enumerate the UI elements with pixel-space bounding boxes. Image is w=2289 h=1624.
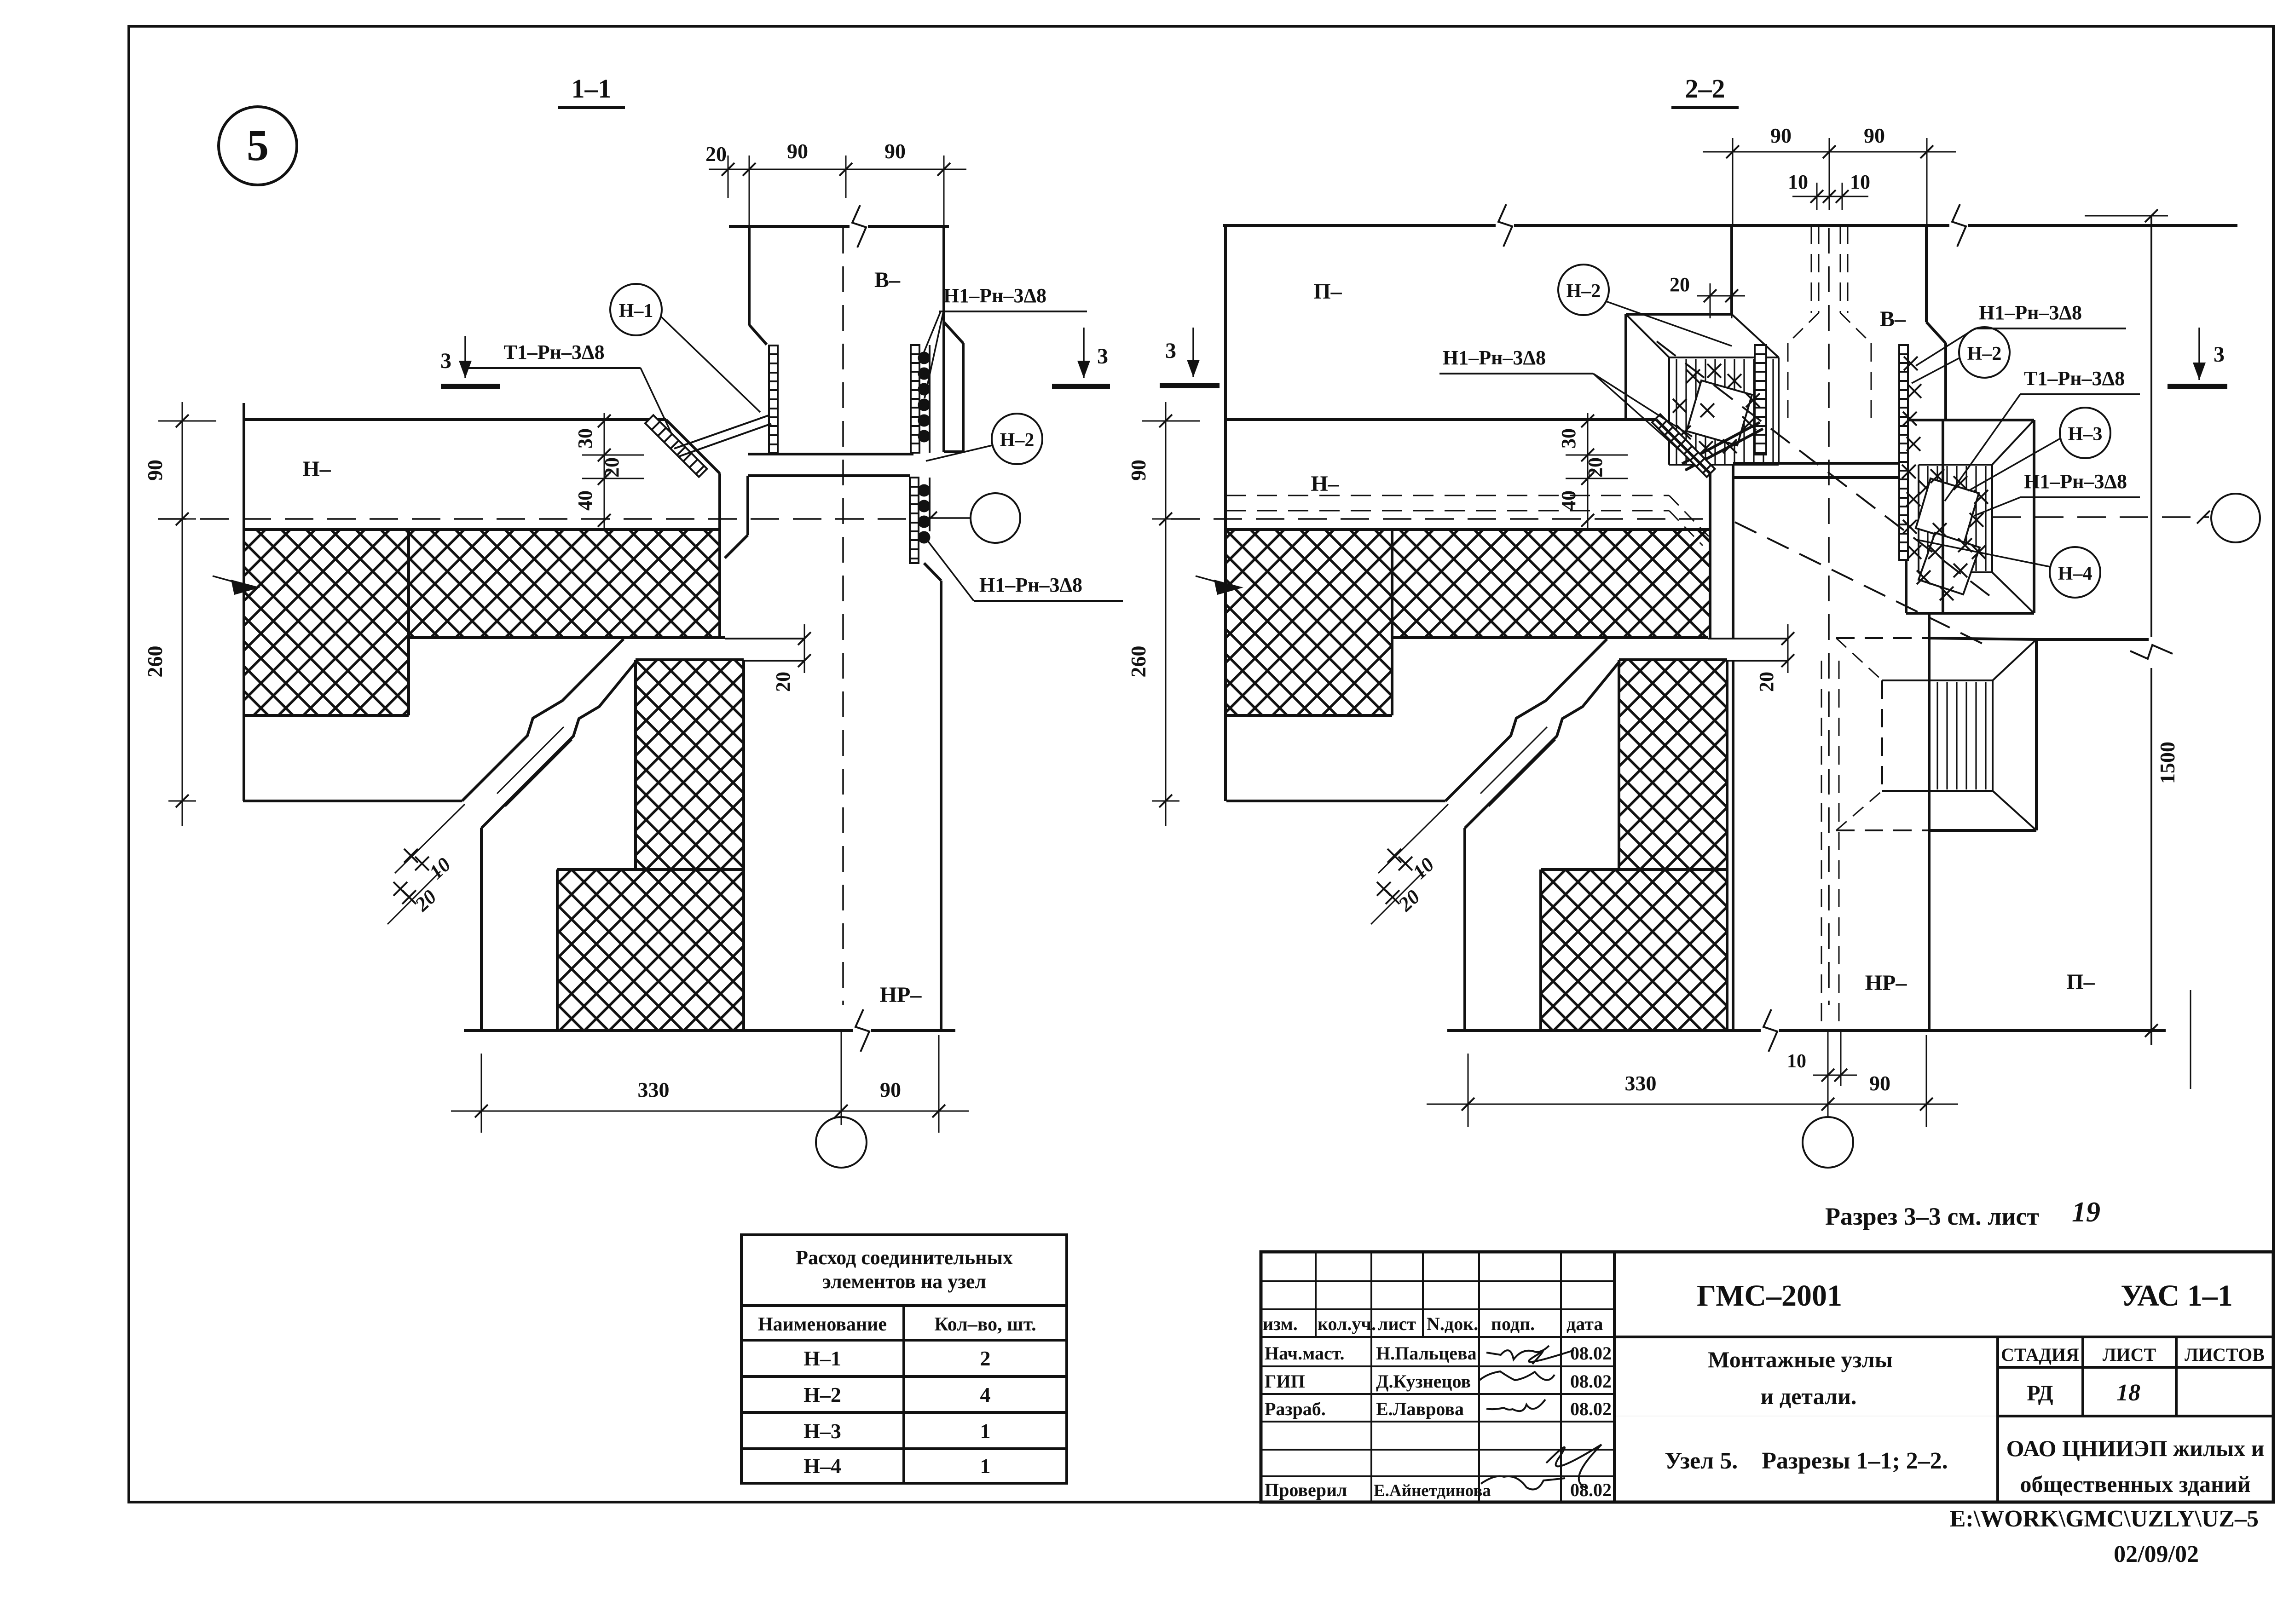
svg-text:Н–: Н–	[1311, 472, 1339, 496]
small dim 10 bottom	[1813, 1075, 1857, 1076]
svg-text:Н1–Рн–3Δ8: Н1–Рн–3Δ8	[943, 284, 1046, 307]
svg-text:5: 5	[247, 121, 269, 170]
section mark 3 (right)	[1083, 328, 1085, 378]
dimension 20 (joint width)	[1710, 283, 1711, 318]
lower hatched block	[557, 870, 744, 1031]
svg-text:02/09/02: 02/09/02	[2114, 1541, 2199, 1567]
svg-text:30: 30	[574, 428, 596, 449]
svg-text:УАС 1–1: УАС 1–1	[2121, 1279, 2232, 1313]
bottom dimension 330/90 (2-2)	[1427, 1104, 1958, 1105]
svg-text:1–1: 1–1	[572, 74, 612, 104]
element H-2 callout	[992, 414, 1042, 464]
svg-text:Н–: Н–	[302, 457, 331, 481]
view direction arrow 1-1	[231, 580, 260, 595]
svg-text:Н–2: Н–2	[1000, 430, 1035, 451]
anchor rod	[674, 415, 769, 449]
svg-text:Н–4: Н–4	[803, 1454, 841, 1478]
reference circle right 2-2	[2211, 494, 2260, 542]
joint width ticks 10/20	[395, 804, 465, 873]
svg-text:90: 90	[787, 139, 808, 163]
svg-text:Н–2: Н–2	[1967, 343, 2002, 364]
svg-text:90: 90	[1770, 124, 1792, 147]
svg-text:Узел 5. Разрезы 1–1; 2–2.: Узел 5. Разрезы 1–1; 2–2.	[1665, 1448, 1948, 1474]
panel axis centerline	[842, 228, 844, 1005]
svg-text:В–: В–	[874, 268, 901, 292]
svg-text:лист: лист	[1378, 1313, 1416, 1334]
joint width ticks 10/20 (2-2)	[1378, 804, 1448, 873]
connection pocket in P- end	[1626, 313, 1732, 316]
svg-text:кол.уч.: кол.уч.	[1318, 1313, 1376, 1334]
svg-text:подп.: подп.	[1491, 1313, 1535, 1334]
svg-text:40: 40	[1557, 490, 1580, 511]
svg-text:НР–: НР–	[1865, 971, 1907, 995]
svg-text:ЛИСТОВ: ЛИСТОВ	[2185, 1344, 2265, 1365]
svg-text:2: 2	[980, 1347, 991, 1370]
svg-text:В–: В–	[1880, 307, 1906, 331]
plates H-3 / H-4 in pocket	[1916, 478, 1979, 543]
element H-1 callout	[610, 284, 662, 335]
slab edge / dim 1500	[2150, 216, 2152, 637]
svg-text:90: 90	[1864, 124, 1885, 147]
wall panel H- (2-2)	[1225, 418, 1656, 421]
svg-text:08.02: 08.02	[1570, 1399, 1612, 1419]
svg-text:Н–1: Н–1	[619, 300, 653, 322]
svg-text:20: 20	[601, 457, 623, 478]
section mark 3 (2-2 right)	[2198, 328, 2200, 380]
svg-text:общественных зданий: общественных зданий	[2020, 1471, 2250, 1497]
svg-text:Нач.маст.: Нач.маст.	[1265, 1343, 1344, 1364]
svg-text:2–2: 2–2	[1685, 74, 1725, 104]
svg-text:1: 1	[980, 1419, 991, 1443]
insulation band under wall	[244, 530, 720, 638]
left dimension 90/260	[182, 402, 183, 826]
svg-text:Расход соединительных: Расход соединительных	[796, 1246, 1013, 1269]
svg-text:Н–1: Н–1	[803, 1347, 841, 1370]
lower hatched block 2-2	[1541, 870, 1727, 1031]
connection pocket right (upper)	[1906, 419, 2034, 421]
svg-text:ГИП: ГИП	[1265, 1371, 1305, 1392]
connection pocket right (lower)	[1836, 637, 1929, 639]
upper wall panel B- outline	[729, 225, 949, 228]
bottom edge of lower panels	[464, 1029, 955, 1032]
svg-text:Н1–Рн–3Δ8: Н1–Рн–3Δ8	[1443, 346, 1546, 369]
svg-text:Разраб.: Разраб.	[1265, 1399, 1326, 1419]
svg-text:дата: дата	[1566, 1313, 1603, 1334]
section mark 3 (left)	[464, 336, 466, 378]
svg-text:РД: РД	[2027, 1381, 2053, 1405]
svg-text:10: 10	[1850, 171, 1870, 193]
left hatched block	[244, 638, 409, 715]
svg-text:330: 330	[1625, 1071, 1657, 1095]
dimensions 30/20/40 (2-2)	[1587, 413, 1589, 529]
sealant channel	[243, 800, 462, 802]
hidden joint lines (dashed)	[1811, 225, 1812, 313]
left hatched block 2-2	[1226, 638, 1392, 715]
svg-text:90: 90	[884, 139, 906, 163]
lower panel HP-	[748, 474, 910, 477]
element H-2 callout (left)	[1558, 265, 1609, 315]
lower centre dashed pair	[1821, 661, 1822, 1031]
section mark 3 (2-2 left)	[1192, 328, 1194, 377]
svg-text:20: 20	[705, 142, 727, 166]
svg-text:08.02: 08.02	[1570, 1371, 1612, 1392]
svg-text:330: 330	[638, 1078, 670, 1101]
svg-text:Н–2: Н–2	[1566, 281, 1601, 302]
bottom edge 2-2	[1447, 1029, 2166, 1032]
top dimension line 20/90/90	[709, 169, 966, 170]
parts consumption table	[741, 1235, 1067, 1483]
svg-text:Н–3: Н–3	[803, 1419, 841, 1443]
svg-text:260: 260	[143, 646, 167, 678]
svg-text:20: 20	[772, 672, 794, 692]
svg-text:E:\WORK\GMC\UZLY\UZ–5: E:\WORK\GMC\UZLY\UZ–5	[1950, 1506, 2259, 1532]
svg-text:Н.Пальцева: Н.Пальцева	[1376, 1343, 1477, 1364]
element H-4 callout	[2050, 547, 2100, 598]
reference circle right	[971, 493, 1020, 543]
svg-text:Кол–во, шт.: Кол–во, шт.	[934, 1314, 1036, 1335]
plate T1 on wall chamfer 2-2	[1652, 414, 1715, 477]
svg-text:НР–: НР–	[880, 983, 922, 1007]
svg-text:Д.Кузнецов: Д.Кузнецов	[1376, 1371, 1471, 1392]
svg-text:СТАДИЯ: СТАДИЯ	[2001, 1344, 2079, 1365]
svg-text:Н–4: Н–4	[2058, 563, 2092, 584]
floor axis line	[158, 518, 913, 520]
axis circle bottom 1-1	[816, 1117, 867, 1168]
svg-text:3: 3	[1165, 339, 1176, 363]
hidden anchor rods (dashed)	[1657, 341, 1993, 598]
svg-text:ЛИСТ: ЛИСТ	[2103, 1344, 2156, 1365]
svg-text:20: 20	[1670, 273, 1690, 296]
svg-text:Наименование: Наименование	[758, 1314, 887, 1335]
signatures	[1486, 1346, 1549, 1359]
svg-text:изм.: изм.	[1263, 1313, 1298, 1334]
svg-text:90: 90	[143, 460, 167, 481]
svg-text:П–: П–	[1313, 279, 1342, 304]
svg-text:1500: 1500	[2156, 742, 2179, 784]
vertical joint faces	[1709, 473, 1711, 638]
svg-text:18: 18	[2116, 1380, 2140, 1406]
svg-text:90: 90	[880, 1078, 901, 1101]
svg-text:Разрез 3–3 см. лист: Разрез 3–3 см. лист	[1825, 1203, 2039, 1230]
svg-text:90: 90	[1127, 460, 1150, 481]
svg-text:и детали.: и детали.	[1761, 1383, 1857, 1409]
axis circle bottom 2-2	[1803, 1117, 1853, 1168]
svg-text:ГМС–2001: ГМС–2001	[1697, 1279, 1842, 1313]
svg-text:Т1–Рн–3Δ8: Т1–Рн–3Δ8	[2024, 367, 2125, 390]
svg-text:Н–3: Н–3	[2068, 424, 2103, 445]
view direction arrow 2-2	[1214, 580, 1243, 595]
svg-text:3: 3	[2214, 342, 2225, 367]
connecting plate H-2 (rotated)	[1687, 380, 1752, 445]
svg-text:20: 20	[1584, 457, 1607, 478]
svg-text:Н–2: Н–2	[803, 1383, 841, 1406]
element H-3 callout	[2060, 408, 2110, 458]
top edge of upper panels	[1223, 224, 2237, 227]
svg-text:Проверил: Проверил	[1265, 1480, 1347, 1500]
element H-2 callout (right)	[1959, 327, 2010, 378]
svg-text:Е.Лаврова: Е.Лаврова	[1376, 1399, 1464, 1419]
title block	[1261, 1252, 2273, 1502]
wall panel H-	[244, 418, 666, 421]
svg-text:П–: П–	[2066, 970, 2095, 994]
axis centerline 2-2	[1828, 228, 1830, 1005]
bottom dimension 330/90	[451, 1111, 969, 1112]
svg-text:30: 30	[1557, 428, 1580, 449]
svg-text:Монтажные узлы: Монтажные узлы	[1708, 1347, 1893, 1372]
svg-text:Н1–Рн–3Δ8: Н1–Рн–3Δ8	[1979, 301, 2082, 324]
svg-text:Н1–Рн–3Δ8: Н1–Рн–3Δ8	[2024, 470, 2127, 493]
plate T1 on wall chamfer	[645, 415, 707, 477]
svg-text:08.02: 08.02	[1570, 1343, 1612, 1364]
sealant channel 2-2	[1226, 800, 1445, 802]
top dimension 10/10	[1792, 196, 1868, 197]
svg-text:3: 3	[440, 349, 451, 373]
svg-text:260: 260	[1127, 646, 1150, 678]
anchor rod in pocket	[1682, 422, 1760, 464]
wall panel B- (2-2)	[1730, 225, 1733, 314]
node number circle 5	[219, 107, 297, 185]
svg-text:ОАО ЦНИИЭП жилых и: ОАО ЦНИИЭП жилых и	[2006, 1435, 2265, 1461]
svg-text:08.02: 08.02	[1570, 1480, 1612, 1500]
svg-text:Н1–Рн–3Δ8: Н1–Рн–3Δ8	[979, 574, 1082, 596]
svg-text:19: 19	[2072, 1197, 2100, 1228]
top dimension 90/90	[1703, 151, 1956, 153]
hatched strip of lower panel	[636, 660, 744, 870]
svg-text:элементов на узел: элементов на узел	[822, 1270, 986, 1293]
hidden pocket lines on wall	[1225, 495, 1669, 496]
svg-text:Е.Айнетдинова: Е.Айнетдинова	[1374, 1481, 1491, 1500]
svg-text:20: 20	[1755, 672, 1778, 692]
svg-text:1: 1	[980, 1454, 991, 1478]
svg-text:4: 4	[980, 1383, 991, 1406]
svg-text:10: 10	[1788, 171, 1808, 193]
insulation band under wall 2-2	[1226, 530, 1709, 638]
svg-text:Т1–Рн–3Δ8: Т1–Рн–3Δ8	[503, 341, 604, 363]
connecting plate strips on panel B-	[769, 346, 778, 453]
svg-text:3: 3	[1097, 344, 1108, 369]
left dimension 90/260 (2-2)	[1165, 402, 1167, 826]
svg-text:90: 90	[1869, 1071, 1890, 1095]
floor axis line 2-2	[1171, 518, 1703, 520]
svg-text:40: 40	[574, 490, 596, 511]
svg-text:N.док.: N.док.	[1427, 1313, 1478, 1334]
dimensions 30/20/40	[604, 413, 605, 529]
hatched strip 2-2	[1619, 660, 1727, 870]
svg-text:10: 10	[1787, 1051, 1806, 1072]
